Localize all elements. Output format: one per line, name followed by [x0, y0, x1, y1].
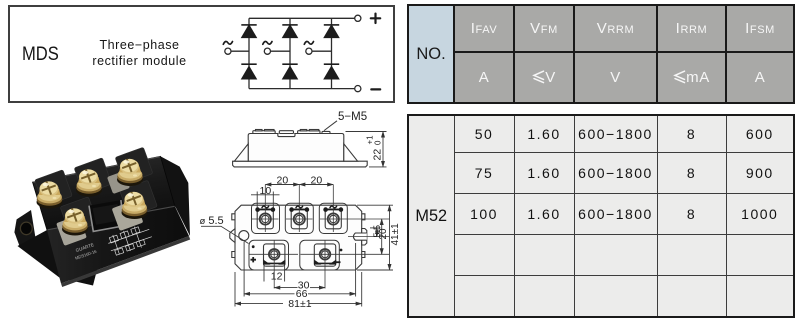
- terminal minus output: [355, 86, 361, 92]
- terminal pads top row: [257, 209, 341, 266]
- photo front face: [47, 207, 189, 284]
- photo screw back-middle: [76, 167, 102, 197]
- wire bottom rail (-): [249, 88, 355, 90]
- label tilde pad3: [330, 206, 337, 208]
- photo left ear: [14, 210, 36, 247]
- svg-text:22: 22: [372, 149, 384, 161]
- photo screw blocks: [35, 147, 158, 233]
- svg-text:12: 12: [271, 270, 283, 282]
- clamp bar AC1: [256, 208, 274, 211]
- side view left flange: [234, 144, 248, 161]
- centerline AC row horizontal: [252, 218, 389, 220]
- top view corner step top-left: [232, 214, 235, 220]
- wire AC stub 3: [312, 50, 332, 52]
- clamp bar AC3: [324, 208, 342, 211]
- pocket AC2: [285, 203, 313, 233]
- photo right flange: [160, 156, 190, 236]
- wire leg 1: [248, 18, 250, 88]
- photo base sliver: [61, 236, 190, 287]
- photo left ear hole: [20, 222, 32, 235]
- svg-text:10: 10: [260, 185, 272, 197]
- label dot left: [252, 245, 255, 248]
- photo bottom-left flange: [18, 230, 99, 286]
- diode D6 lower leg3: [324, 64, 339, 79]
- centerline DC minus vertical: [324, 240, 326, 289]
- top view body outline: [235, 205, 362, 270]
- top view left ear: [230, 229, 235, 243]
- pad AC2: [291, 209, 307, 229]
- side view body outline: [248, 134, 344, 162]
- pad DC minus: [314, 244, 335, 266]
- top view corner step bottom-right: [362, 252, 365, 258]
- svg-text:5−M5: 5−M5: [338, 111, 367, 123]
- label diameter 5.5 with leader: [200, 215, 249, 244]
- dim 20 20 top: [265, 184, 333, 186]
- dim 30: [274, 287, 325, 289]
- side view terminal boss left: [253, 130, 275, 134]
- svg-text:20: 20: [311, 175, 323, 187]
- pad AC1: [257, 209, 273, 229]
- top view right tab with slot: [362, 229, 367, 246]
- photo brand text: [72, 242, 98, 261]
- photo screw back-left: [37, 179, 63, 209]
- wire leg 3: [331, 18, 333, 88]
- dimensions bottom: [235, 242, 362, 307]
- terminal pockets: [249, 203, 347, 270]
- centerline DC row horizontal: [250, 253, 390, 255]
- dimensions top: [251, 185, 333, 208]
- wire AC stub 1: [231, 50, 249, 52]
- diode D1 upper leg1: [241, 25, 256, 37]
- label 5-M5 with leader: [324, 111, 367, 131]
- label plus sign: [371, 14, 380, 23]
- wire top rail (+): [249, 17, 355, 19]
- photo front ridge highlight: [48, 206, 175, 230]
- label 10: [260, 185, 272, 197]
- photo top face back edge highlight: [33, 157, 160, 183]
- photo screw front-left: [62, 206, 88, 236]
- label minus sign: [371, 88, 380, 90]
- diode D5 lower leg2: [282, 64, 297, 79]
- photo top face: [33, 156, 176, 230]
- photo printed schematic: [106, 222, 154, 257]
- centerline slot horizontal: [348, 236, 389, 238]
- top view corner step bottom-left: [232, 252, 235, 258]
- side view terminal boss right: [298, 130, 320, 134]
- clamp bar DC minus: [315, 261, 336, 264]
- label 12: [264, 265, 285, 283]
- label plus mark: [251, 257, 257, 262]
- photo light pads: [56, 171, 143, 246]
- dimension 22 +1/0 right of side view: [346, 132, 387, 167]
- clamp bar AC2: [290, 208, 308, 211]
- title box: [8, 5, 395, 103]
- label tilde AC1: [223, 41, 232, 44]
- terminal AC3: [306, 48, 312, 54]
- clamp bar DC plus: [264, 261, 285, 264]
- side view base plate: [233, 161, 368, 167]
- polarity marks: [251, 245, 343, 262]
- dimensions right side: [357, 205, 393, 270]
- diode D3 upper leg3: [324, 25, 339, 37]
- label 81+-1: [288, 298, 311, 310]
- centerline AC3 vertical: [332, 185, 334, 232]
- label tilde AC3: [304, 41, 313, 44]
- top view slot hole: [353, 233, 366, 240]
- side view right flange: [344, 144, 358, 161]
- centerlines: [250, 185, 390, 289]
- pad top bars with dots: [256, 208, 342, 264]
- label dot right: [340, 249, 343, 252]
- photo screw back-right: [117, 156, 143, 186]
- top view corner step top-right: [362, 214, 365, 220]
- label 20 rotated: [378, 228, 389, 240]
- label 20 left: [277, 175, 289, 187]
- top view left mounting hole: [239, 231, 249, 241]
- pocket AC3: [319, 203, 347, 233]
- diode D2 upper leg2: [282, 25, 297, 37]
- wire AC stub 2: [271, 50, 291, 52]
- body table: [407, 114, 795, 318]
- centerline AC1 vertical: [264, 185, 266, 232]
- svg-text:20: 20: [277, 175, 289, 187]
- tildes on AC pads: [262, 206, 337, 208]
- header table: [407, 4, 795, 104]
- pocket DC plus: [249, 240, 289, 270]
- dim 41+-1: [357, 205, 393, 270]
- pocket DC minus: [300, 240, 340, 270]
- diode D4 lower leg1: [241, 64, 256, 79]
- centerline AC2 vertical: [298, 185, 300, 232]
- svg-text:0: 0: [374, 140, 383, 145]
- dim 10: [251, 192, 280, 208]
- label 5.5 rotated: [372, 225, 382, 238]
- label tilde pad1: [262, 206, 269, 208]
- side view terminal boss middle: [278, 131, 295, 137]
- label 66: [296, 288, 308, 300]
- label tilde AC2: [263, 41, 272, 44]
- label 20 right: [311, 175, 323, 187]
- label 41+-1 rotated: [390, 223, 401, 246]
- dim 81+-1: [235, 272, 362, 307]
- pad AC3: [325, 209, 341, 229]
- terminal plus output: [355, 15, 361, 21]
- photo label window: [89, 200, 124, 231]
- pocket AC1: [252, 203, 280, 233]
- label tilde pad2: [296, 206, 303, 208]
- terminal AC2: [264, 48, 270, 54]
- centerline DC plus vertical: [273, 240, 275, 289]
- pad DC plus: [264, 244, 285, 266]
- label minus mark: [335, 261, 341, 263]
- dim 5.5 slot: [370, 228, 381, 237]
- terminal AC1: [225, 48, 231, 54]
- dim 20 right: [381, 219, 383, 254]
- svg-text:ø 5.5: ø 5.5: [200, 215, 224, 227]
- svg-text:81±1: 81±1: [288, 298, 311, 310]
- side view small tab right: [322, 131, 330, 133]
- dim 66: [244, 242, 356, 297]
- svg-text:20: 20: [378, 228, 389, 240]
- wire leg 2: [289, 18, 291, 88]
- photo screw front-right: [122, 189, 148, 219]
- label 30: [298, 279, 310, 291]
- svg-text:41±1: 41±1: [390, 223, 401, 246]
